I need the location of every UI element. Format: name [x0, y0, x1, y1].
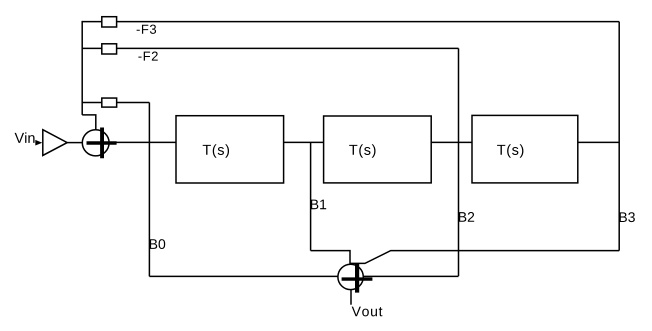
gain box -F3 — [102, 17, 117, 27]
label T(s) block U3 — [497, 144, 523, 158]
gain box -F2 — [102, 44, 117, 54]
wire block U1 to block U2 — [284, 141, 324, 143]
label Vout — [352, 307, 383, 317]
wire B1 into summer S2 top — [311, 251, 350, 265]
wire node B0 vertical — [148, 103, 150, 277]
wire node B1 vertical — [310, 142, 312, 250]
wire -F2 feedback — [82, 47, 458, 49]
wire F1 feedback — [82, 102, 149, 104]
input arrow into buffer A1 — [35, 140, 42, 146]
buffer amplifier A1 — [43, 130, 67, 156]
wire block U2 to block U3 — [431, 141, 472, 143]
label -F3 — [137, 25, 156, 34]
wire summer S2 to B2 — [363, 275, 458, 277]
summer S2 plus sign — [342, 263, 373, 292]
block U1 T(s) — [176, 116, 284, 183]
block U2 T(s) — [324, 116, 432, 183]
label node B1 — [311, 200, 326, 210]
label T(s) block U2 — [349, 144, 375, 158]
wire summer S2 output to Vout — [350, 290, 352, 305]
label node B2 — [459, 212, 474, 222]
wire B3 diagonal into summer S2 — [350, 251, 619, 264]
summer S1 circle — [82, 130, 109, 156]
wire summer S1 to block U1 — [109, 141, 176, 143]
wire node B3 vertical — [618, 22, 620, 251]
wire left vertical feedback bus — [81, 21, 83, 115]
wire node B2 vertical — [458, 48, 460, 276]
wire block U3 to node B3 — [578, 141, 619, 143]
label Vin — [15, 132, 35, 143]
gain box F1 — [102, 98, 117, 107]
summer S2 circle — [338, 264, 363, 289]
label T(s) block U1 — [203, 144, 229, 158]
block U3 T(s) — [472, 115, 578, 182]
wire -F3 feedback top — [82, 21, 619, 23]
wire buffer output to summer S1 — [67, 142, 83, 144]
wire jog into summer S1 top — [82, 115, 96, 130]
summer S1 plus sign — [87, 128, 117, 159]
label node B3 — [620, 212, 635, 222]
label node B0 — [150, 239, 165, 249]
label -F2 — [138, 52, 157, 61]
wire B0 to summer S2 — [149, 275, 338, 277]
